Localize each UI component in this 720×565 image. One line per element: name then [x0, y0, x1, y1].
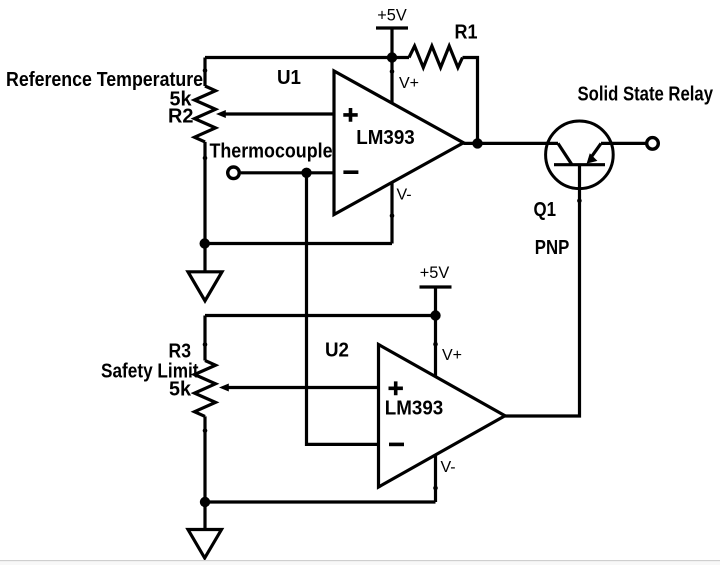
- svg-text:V+: V+: [399, 75, 419, 92]
- wire node thermocouple down to U2 - input: [307, 173, 379, 445]
- wire R2 bottom to ground rail: [203, 142, 206, 272]
- ground 2 symbol: [188, 530, 222, 559]
- wire R2 wiper to U1 + input: [225, 112, 334, 115]
- svg-text:V-: V-: [397, 186, 412, 203]
- node junction dot R3 bottom: [200, 497, 210, 507]
- svg-text:V+: V+: [442, 347, 462, 364]
- node junction dot U1 output: [472, 138, 482, 148]
- wire bottom rail lower section: [205, 500, 436, 503]
- arrowhead R3 wiper: [219, 384, 229, 392]
- svg-text:LM393: LM393: [356, 127, 415, 149]
- svg-text:V-: V-: [441, 459, 456, 476]
- arrowhead R2 wiper: [216, 110, 226, 118]
- power +5V symbol lower: bar: [420, 285, 452, 288]
- op-amp U2 triangle: [379, 345, 506, 488]
- wire R3 bottom to ground: [203, 416, 206, 529]
- terminal thermocouple open circle: [228, 167, 240, 179]
- transistor Q1 circle: [546, 121, 614, 189]
- svg-text:5k: 5k: [169, 379, 192, 401]
- wire V+ pin U1: [390, 58, 393, 104]
- svg-text:LM393: LM393: [385, 398, 444, 420]
- svg-text:U2: U2: [325, 340, 349, 362]
- wire top rail lower section: [205, 316, 436, 361]
- wire V- pin U2: [434, 455, 437, 502]
- svg-text:PNP: PNP: [535, 237, 570, 259]
- transistor Q1 emitter angled lead with arrow: [590, 143, 602, 159]
- op-amp U1 plus input symbol: [343, 108, 357, 122]
- svg-text:+5V: +5V: [420, 263, 450, 282]
- op-amp U2 minus input symbol: [389, 443, 404, 447]
- svg-text:R1: R1: [455, 22, 478, 44]
- wire R1 right to corner and down to output node: [463, 58, 478, 144]
- terminal relay open circle: [647, 138, 659, 150]
- wire R3 wiper to U2 + input: [228, 386, 379, 389]
- svg-text:Thermocouple: Thermocouple: [210, 140, 333, 162]
- svg-text:U1: U1: [277, 67, 301, 89]
- node pin nub U2 V+: [433, 342, 438, 347]
- svg-text:+5V: +5V: [377, 6, 407, 25]
- node pin nub R2 top: [203, 68, 208, 73]
- wire Q1 base down to U2 output: [505, 165, 580, 416]
- wire top rail from R2 top to R1 left: [205, 58, 409, 87]
- node pin nub Q1 base: [577, 198, 582, 203]
- wire bottom rail of top section: [205, 242, 392, 245]
- resistor R3 potentiometer zigzag: [195, 361, 216, 417]
- wire +5V drop to top rail: [390, 28, 393, 58]
- node pin nub R2 bottom: [203, 156, 208, 161]
- arrowhead Q1 emitter (PNP, points toward base): [587, 153, 598, 163]
- node pin nub U1 V-: [390, 214, 395, 219]
- power +5V symbol top: bar: [376, 26, 408, 29]
- node junction dot +5V lower rail: [430, 310, 440, 320]
- node junction dot R2 bottom: [200, 238, 210, 248]
- wire V+ pin U2: [434, 316, 437, 378]
- resistor R2 potentiometer zigzag: [195, 86, 216, 142]
- wire V- pin U1: [390, 182, 393, 243]
- resistor R1 zigzag: [409, 46, 463, 68]
- svg-text:R2: R2: [168, 106, 194, 128]
- wire thermocouple to U1 - input: [241, 171, 334, 174]
- node junction dot thermocouple: [301, 168, 311, 178]
- op-amp U1 minus input symbol: [343, 170, 358, 174]
- footer divider line: [0, 560, 720, 561]
- wire Q1 emitter to relay terminal: [601, 142, 647, 145]
- node pin nub R3 top: [203, 342, 208, 347]
- node pin nub U1 V+: [390, 69, 395, 74]
- op-amp U1 triangle: [334, 71, 464, 215]
- node pin nub U2 V-: [433, 486, 438, 491]
- svg-text:Q1: Q1: [534, 199, 557, 221]
- transistor Q1 base bar: [554, 163, 605, 166]
- wire U1 output to Q1 collector: [464, 142, 559, 145]
- svg-text:Solid State Relay: Solid State Relay: [578, 84, 714, 106]
- node junction dot +5V/R1/rail: [387, 52, 397, 62]
- node pin nub R3 bottom: [203, 428, 208, 433]
- svg-text:R3: R3: [169, 341, 192, 363]
- ground 1 symbol: [188, 272, 222, 301]
- wire +5V lower drop: [434, 287, 437, 316]
- op-amp U2 plus input symbol: [389, 381, 403, 395]
- transistor Q1 collector angled lead: [558, 143, 572, 164]
